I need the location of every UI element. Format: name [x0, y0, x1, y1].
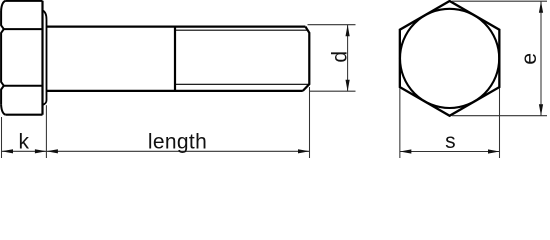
thread minor line bottom: [175, 83, 309, 85]
head bearing face: [41, 1, 43, 115]
k extension line left: [1, 117, 3, 158]
dimension k: [2, 105, 47, 158]
s arrow right: [488, 149, 500, 153]
head bottom edge: [6, 114, 43, 116]
dimension length: [46, 87, 309, 158]
k arrow right: [35, 149, 47, 153]
svg-text:d: d: [329, 51, 352, 63]
s dimension line: [400, 151, 500, 153]
thread minor line top: [175, 29, 308, 31]
k extension line right: [45, 105, 47, 158]
head chamfer arc bottom-left: [1, 105, 6, 115]
e extension line bottom: [452, 115, 547, 117]
length arrow right: [298, 149, 310, 153]
s extension line left: [399, 88, 401, 158]
d dimension line: [347, 25, 349, 92]
s arrow left: [400, 149, 412, 153]
d extension line top: [308, 24, 356, 26]
hex head end view: [400, 1, 500, 116]
chamfer circle: [400, 9, 499, 108]
length extension line right: [309, 87, 311, 158]
shank bottom edge: [47, 90, 303, 92]
s extension line right: [499, 88, 501, 158]
head chamfer arc top-left: [1, 1, 6, 11]
head face line lower: [4, 85, 43, 87]
svg-text:s: s: [445, 130, 456, 153]
length arrow left: [46, 149, 58, 153]
head left edge with notches: [1, 11, 4, 105]
length dimension line: [46, 150, 309, 152]
e arrow top: [539, 1, 543, 13]
dimension s: [400, 88, 500, 158]
d arrow bottom: [346, 80, 350, 92]
dimension d: [308, 25, 356, 92]
e arrow bottom: [539, 104, 543, 116]
k dimension line: [2, 150, 47, 152]
svg-text:k: k: [19, 131, 30, 154]
head face line upper: [4, 28, 43, 30]
bolt end chamfer: [303, 27, 310, 91]
e extension line top: [452, 0, 547, 2]
d arrow top: [346, 25, 350, 37]
e dimension line: [540, 1, 542, 116]
thread runout line: [174, 27, 176, 91]
k arrow left: [2, 149, 14, 153]
hexagon outline: [400, 1, 500, 116]
bolt head side view: [1, 1, 309, 115]
shank top edge: [47, 26, 306, 28]
svg-text:length: length: [148, 131, 207, 154]
dimension e: [452, 1, 547, 116]
head top edge: [6, 0, 43, 2]
washer face transition: [43, 11, 47, 105]
svg-text:e: e: [518, 53, 541, 65]
d extension line bottom: [310, 90, 356, 92]
